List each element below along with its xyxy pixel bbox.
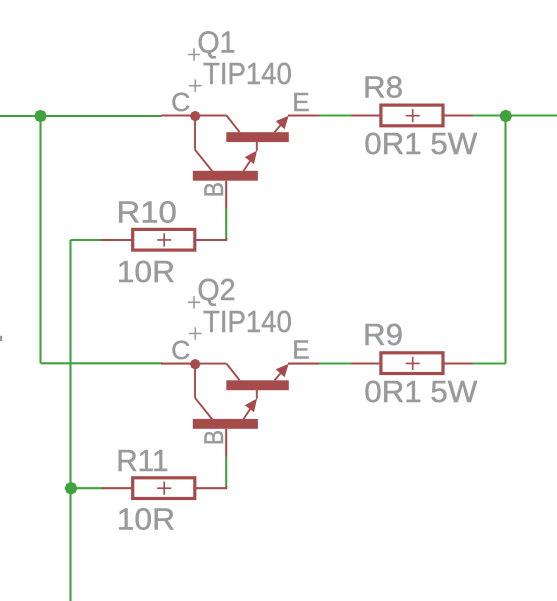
wire horizontal to Q2 collector — [41, 362, 163, 364]
transistor Q1 body — [193, 116, 289, 181]
resistor R9 left pin wire — [351, 362, 380, 364]
label R10 value 10R — [117, 256, 175, 289]
transistor Q2 base pin wire — [225, 429, 227, 457]
wire Q1 emitter to R8 — [318, 114, 352, 116]
wire right bus to R9 — [472, 362, 506, 364]
label R11 value 10R — [117, 504, 175, 537]
pin label B of Q2 — [199, 430, 229, 445]
svg-text:E: E — [292, 335, 309, 365]
resistor R9 body — [381, 353, 443, 374]
svg-text:0R1 5W: 0R1 5W — [364, 128, 478, 161]
label R8 value 0R1 5W — [364, 128, 478, 161]
svg-text:Q2: Q2 — [197, 274, 235, 307]
resistor R10 body — [133, 229, 195, 250]
transistor Q2 body — [193, 364, 289, 429]
resistor R8 left pin wire — [351, 114, 380, 116]
label R9 value 0R1 5W — [364, 376, 478, 409]
transistor Q1 emitter pin wire — [288, 114, 319, 116]
svg-text:C: C — [171, 335, 190, 365]
svg-text:R8: R8 — [363, 72, 403, 105]
label Q1 value TIP140 — [203, 58, 292, 91]
label R10 name — [117, 196, 177, 229]
svg-text:R10: R10 — [117, 196, 177, 229]
transistor Q1 base pin wire — [225, 181, 227, 209]
transistor Q2 collector pin wire — [161, 363, 195, 365]
pin label B of Q1 — [199, 182, 229, 197]
transistor Q1 collector pin wire — [161, 114, 195, 116]
Q1 origin cross 1 — [188, 48, 200, 60]
resistor R8 body — [381, 105, 443, 126]
svg-text:C: C — [171, 87, 190, 117]
svg-text:E: E — [292, 87, 309, 117]
pin label E of Q1 — [292, 87, 309, 117]
resistor R10 left pin wire — [101, 239, 132, 241]
svg-text:B: B — [199, 182, 229, 197]
resistor R10 right pin wire — [196, 238, 227, 240]
wire R8 to right edge — [472, 114, 557, 116]
resistor R8 right pin wire — [444, 114, 473, 116]
Q1 origin cross 2 — [189, 80, 201, 92]
Q2 origin cross 2 — [189, 327, 201, 339]
Q2 origin cross 1 — [188, 296, 200, 308]
pin label C of Q1 — [171, 87, 190, 117]
transistor Q2 emitter pin wire — [288, 363, 319, 365]
svg-text:TIP140: TIP140 — [203, 58, 292, 91]
svg-text:TIP140: TIP140 — [203, 306, 292, 339]
svg-text:0R1 5W: 0R1 5W — [364, 376, 478, 409]
svg-text:B: B — [199, 430, 229, 445]
wire Q2 emitter to R9 — [318, 362, 352, 364]
wire vertical right bus x=506 — [504, 116, 506, 364]
label R8 name — [363, 72, 403, 105]
wire vertical left bus x=40 — [39, 116, 41, 363]
svg-text:Q1: Q1 — [197, 26, 235, 59]
label Q1 name — [197, 26, 235, 59]
pin label C of Q2 — [171, 335, 190, 365]
resistor R11 right pin wire — [196, 486, 227, 488]
label Q2 name — [197, 274, 235, 307]
label R11 name — [116, 445, 168, 478]
svg-text:10R: 10R — [117, 256, 175, 289]
junction at R11 tap — [65, 482, 78, 495]
wire R10 left stub — [71, 239, 103, 241]
resistor R11 body — [133, 478, 195, 499]
resistor R9 right pin wire — [444, 362, 473, 364]
wire R11 left stub — [71, 487, 104, 489]
net label fragment at left edge — [0, 336, 2, 341]
resistor R11 left pin wire — [102, 487, 132, 489]
wire vertical bus x=70 to bottom edge — [69, 240, 71, 601]
pin label E of Q2 — [292, 335, 309, 365]
junction at collector of Q2 — [190, 359, 201, 370]
junction right bus — [499, 110, 512, 123]
wire Q1 base to R10 — [225, 209, 227, 240]
svg-text:R9: R9 — [363, 319, 403, 352]
label R9 name — [363, 319, 403, 352]
svg-text:10R: 10R — [117, 504, 175, 537]
svg-text:R11: R11 — [116, 445, 168, 478]
wire Q2 base to R11 — [225, 456, 227, 487]
label Q2 value TIP140 — [203, 306, 292, 339]
wire net from left edge to Q1 collector — [0, 115, 162, 117]
junction at collector of Q1 — [190, 111, 201, 122]
junction left bus top — [34, 110, 47, 123]
